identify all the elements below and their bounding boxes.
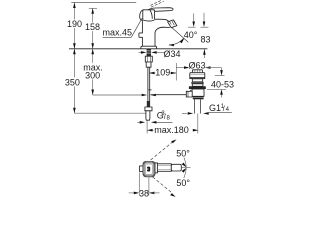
svg-text:158: 158	[85, 22, 100, 32]
supply pipe end thread	[147, 101, 150, 107]
svg-text:40°: 40°	[184, 30, 198, 40]
plan view lever grip	[171, 164, 181, 171]
pipe coupling nut	[146, 62, 151, 67]
svg-text:max.45: max.45	[103, 28, 133, 38]
arrow 158 bottom	[91, 43, 94, 49]
plan view knob	[139, 166, 143, 172]
extension line max300 bottom	[93, 94, 144, 96]
waste collar dark	[189, 86, 206, 89]
40deg face extension line	[172, 28, 188, 43]
svg-text:109: 109	[155, 68, 170, 78]
faucet base flange	[141, 46, 157, 48]
waste plug knob	[192, 70, 202, 73]
outlet level stub line right	[200, 26, 208, 28]
waste thread band	[193, 96, 204, 99]
plan view lever collar	[155, 163, 157, 173]
svg-text:38: 38	[139, 188, 149, 198]
arrow max300 top	[91, 49, 94, 55]
svg-text:Ø34: Ø34	[164, 49, 181, 59]
extension line 350 bottom	[74, 112, 145, 114]
dimension 158 vertical	[92, 8, 94, 49]
G1 1/4 arrows	[182, 112, 187, 114]
swing dashed line lower	[153, 177, 173, 194]
supply pipe tip	[146, 111, 150, 120]
arrow 158 top	[91, 8, 94, 14]
label 158	[85, 23, 101, 32]
svg-text:max.180: max.180	[154, 125, 189, 135]
raised lever phantom dashes	[151, 1, 164, 7]
shank threaded below deck	[147, 49, 151, 57]
waste tailpipe	[193, 99, 195, 113]
label 38	[140, 189, 148, 197]
dimension 40-53 top arrow	[221, 68, 223, 71]
tailpipe center extension	[197, 114, 199, 134]
38 extension lines	[138, 172, 140, 194]
label 190	[67, 20, 83, 29]
down arrow at outlet level right (83 top)	[203, 13, 205, 22]
dimension 38	[129, 192, 136, 194]
50deg arc lower	[180, 169, 187, 186]
deck line	[69, 48, 207, 50]
plan view centerline	[181, 167, 190, 169]
svg-text:83: 83	[201, 35, 211, 45]
supply pipe	[147, 67, 149, 101]
plan view body	[143, 161, 155, 176]
svg-text:50°: 50°	[176, 149, 190, 159]
lever	[148, 8, 173, 12]
40deg arc arrow upper	[180, 38, 185, 43]
extension line 40-53 bottom	[207, 88, 226, 90]
locknut	[145, 56, 152, 62]
supply pipe end nut	[145, 107, 152, 111]
extension line 109 right	[175, 63, 177, 81]
svg-text:40-53: 40-53	[211, 79, 234, 89]
svg-text:G1: G1	[209, 103, 221, 113]
pop-up rod	[151, 94, 187, 96]
swing arrow lower	[170, 193, 175, 197]
handle cap box	[143, 10, 155, 20]
dimension 83 bottom arrow	[203, 49, 205, 58]
outlet level stub line left	[188, 26, 196, 28]
40deg arc arrow lower	[169, 44, 174, 46]
arrow 350 bottom	[73, 108, 76, 114]
plan view body inner	[146, 164, 153, 174]
faucet body right edge and spout bottom	[155, 27, 170, 46]
dimension 190 vertical	[73, 3, 75, 49]
dimension 40-53 bottom arrow	[221, 95, 223, 98]
plan view lever shaft	[157, 164, 171, 172]
rod guide tick	[148, 89, 151, 91]
waste neck	[192, 79, 203, 82]
label max300	[84, 63, 103, 80]
svg-text:50°: 50°	[176, 178, 190, 188]
arrow 190 bottom	[73, 43, 76, 49]
extension line 158 top stub	[89, 7, 97, 9]
dimension Ø34 arrows	[139, 51, 142, 53]
G1 1/4 underline	[209, 111, 232, 113]
waste upper body	[192, 84, 203, 87]
svg-text:350: 350	[65, 77, 80, 87]
aerator block	[168, 20, 177, 28]
handle cap inner curve	[150, 10, 152, 19]
svg-text:Ø63: Ø63	[188, 61, 205, 71]
max45 leader	[131, 18, 142, 37]
waste ring	[191, 82, 204, 84]
svg-text:300: 300	[85, 71, 100, 81]
svg-text:190: 190	[67, 19, 82, 29]
dimension max180	[146, 121, 148, 134]
handle dome	[140, 10, 144, 21]
label 50deg upper	[176, 149, 191, 158]
dimension max300 vertical	[92, 49, 94, 95]
svg-text:/: /	[223, 106, 225, 113]
down arrow at outlet level left	[193, 13, 195, 21]
waste flange cup	[190, 73, 205, 79]
G 3/8 underline	[156, 121, 172, 123]
G 3/8 arrows	[137, 121, 140, 123]
arrow max300 bottom	[91, 90, 94, 96]
plan view body corner shading	[144, 162, 155, 176]
50deg arc upper	[180, 150, 187, 167]
extension line 40-53 top	[215, 75, 225, 77]
extension line top (raised lever level)	[71, 2, 136, 4]
dimension Ø63	[176, 67, 189, 69]
swing dashed line upper	[151, 142, 174, 161]
40deg arc	[169, 38, 184, 45]
spout top edge	[155, 19, 169, 21]
handle neck lines	[143, 20, 154, 21]
label 350	[64, 77, 81, 86]
waste lower body	[192, 89, 204, 96]
label Ø63	[189, 61, 206, 69]
arrow 190 top	[73, 3, 76, 9]
arrow 350 top	[73, 49, 76, 55]
swing arrow upper	[171, 139, 176, 143]
faucet body left edge	[139, 21, 143, 46]
dimension 109	[149, 72, 176, 74]
plan view center pill	[147, 167, 150, 172]
max45 underline	[103, 36, 132, 38]
rod clevis	[186, 91, 192, 97]
label 50deg lower	[176, 178, 191, 187]
dimension 350 vertical	[73, 49, 75, 113]
aerator hatching	[169, 20, 176, 27]
